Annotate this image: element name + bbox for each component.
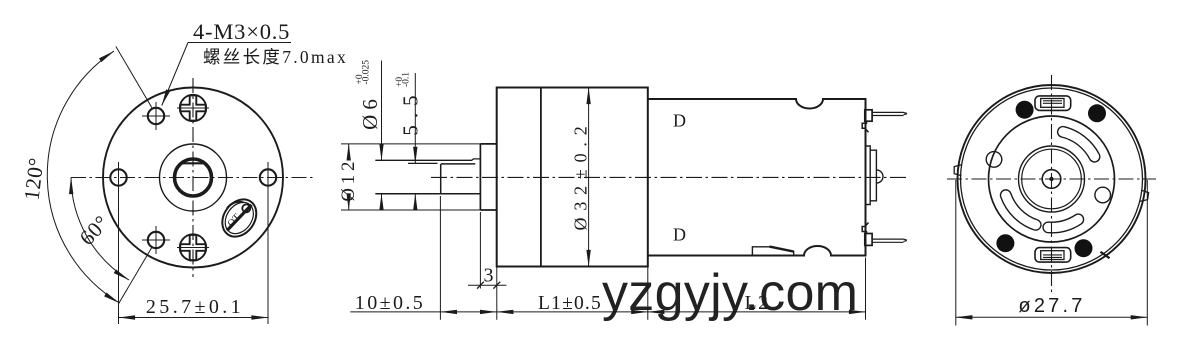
phillips screw top crosshair [177, 107, 209, 109]
dia6 dimension line lower [381, 194, 383, 210]
phillips screw bottom [180, 234, 206, 260]
mounting hole left M3 [110, 169, 126, 185]
vent slot lower-left [1000, 190, 1040, 230]
end cap bearing boss step1 [866, 146, 871, 205]
brush terminal bottom [1035, 248, 1071, 263]
motor end outer circle [958, 85, 1146, 273]
shaft flat edge segment b [441, 163, 475, 165]
end bell plateau circle [989, 116, 1115, 242]
svg-text:螺丝长度7.0max: 螺丝长度7.0max [203, 47, 348, 67]
gearbox right edge extension line [647, 267, 649, 320]
dia12 extension top [341, 143, 480, 145]
dimension L1 line [497, 311, 648, 313]
upper-left hole crosshair [142, 115, 170, 117]
radial extension line 240deg hole [119, 247, 152, 303]
shaft end circle [1042, 170, 1061, 189]
right view vertical centerline [1051, 75, 1053, 292]
rivet top-right [1088, 104, 1106, 122]
dim 5.5 dimension line lower [414, 194, 416, 210]
svg-text:3: 3 [484, 265, 494, 287]
dimension 27.7 line [956, 316, 1148, 318]
dia12 dimension arrows [348, 144, 350, 158]
right hole extension line down to dimension [267, 162, 269, 324]
terminal block bottom [865, 234, 872, 246]
dia6 dimension line upper [381, 61, 383, 161]
label 5.5 with tolerance [395, 72, 423, 136]
label dia6 with tolerance [355, 60, 382, 130]
dim 5.5 dimension line upper [414, 73, 416, 163]
leader 4-M3 callout [188, 42, 291, 44]
gearbox cover seam line [540, 88, 542, 267]
flange notch left [954, 165, 962, 176]
svg-text:Ø6: Ø6 [358, 94, 382, 130]
rivet bottom-right [1075, 239, 1093, 257]
right view horizontal centerline [947, 178, 1156, 180]
phillips screw top [180, 95, 206, 121]
svg-text:Ø12: Ø12 [339, 158, 359, 202]
cap tab below top terminal [862, 121, 868, 132]
shaft tip end face [440, 164, 442, 194]
dimension 10 line [350, 311, 497, 313]
shaft top line with flat [375, 159, 480, 160]
bearing housing circle inner [1022, 149, 1082, 209]
gearbox front hub circle [160, 144, 227, 211]
output boss top edge [480, 143, 496, 145]
flange chamfer mark lower-right [1101, 252, 1110, 258]
dia12 extension bottom [341, 209, 480, 211]
svg-text:D: D [673, 225, 686, 245]
dimension L2 line [648, 311, 866, 313]
cap tab above bottom terminal [862, 223, 868, 234]
dimension 25.7 line [119, 317, 269, 319]
left view vertical centerline [192, 78, 194, 277]
vent slot top-right [1058, 127, 1100, 162]
svg-text:ø27.7: ø27.7 [1018, 295, 1085, 317]
end cap bearing boss step2 [870, 150, 876, 201]
shaft bottom line [375, 193, 480, 195]
flange notch right [1140, 190, 1149, 201]
radial extension line 120deg hole [116, 47, 152, 108]
gearbox body rectangle [497, 88, 648, 267]
mounting hole lower-left M3 [148, 232, 164, 248]
svg-text:120°: 120° [19, 156, 48, 201]
rivet top-left [1016, 101, 1034, 119]
svg-text:-0.1: -0.1 [402, 72, 412, 87]
vent slot bottom [1043, 214, 1084, 233]
motor body outline [648, 99, 866, 256]
motor end inner rim circle [961, 88, 1143, 270]
dim 3 line with ticks [468, 284, 506, 286]
mounting hole right M3 [260, 169, 276, 185]
dim 3 extension line [479, 212, 481, 289]
bearing housing circle outer [1019, 146, 1085, 212]
mounting hole upper-left M3 [148, 108, 164, 124]
svg-text:10±0.5: 10±0.5 [355, 292, 425, 314]
motor end extension line [865, 258, 867, 320]
terminal pin bottom [872, 238, 903, 240]
rivet bottom-left [996, 234, 1014, 252]
vent hole upper-left [986, 152, 1002, 168]
gearbox face extension line [496, 267, 498, 320]
brush terminal top [1035, 96, 1071, 111]
dim 10 extension line at shaft flat [439, 196, 441, 320]
gearbox front outer circle [103, 88, 283, 268]
lower-left hole crosshair [142, 239, 170, 241]
svg-text:Ø32±0.2: Ø32±0.2 [571, 120, 591, 231]
shaft hole flat chord [182, 162, 204, 164]
svg-text:yzgyjy.com: yzgyjy.com [602, 264, 858, 322]
svg-text:60°: 60° [75, 211, 114, 250]
bottom vent tab [752, 247, 793, 256]
60 degree dimension arc [71, 178, 129, 281]
svg-text:5.5: 5.5 [399, 88, 423, 135]
dia32 dimension line [588, 88, 590, 267]
bearing nub semicircle [876, 170, 883, 183]
output shaft hole thick ring [175, 159, 212, 196]
phillips screw bottom crosshair [177, 247, 209, 249]
brand stamp logo oval [215, 193, 263, 243]
shaft flat edge segment a [408, 162, 438, 164]
svg-text:L1±0.5: L1±0.5 [538, 293, 602, 314]
terminal block top [865, 110, 872, 121]
svg-text:D: D [673, 111, 686, 131]
output boss face [479, 144, 481, 210]
left view horizontal centerline [71, 177, 313, 179]
middle view centerline [431, 176, 909, 178]
120 degree dimension arc [47, 51, 119, 303]
shaft center dot [1049, 177, 1053, 181]
left hole extension line down to dimension [118, 162, 120, 324]
terminal pin top [872, 111, 903, 113]
dia27.7 extension lines [955, 180, 957, 326]
output boss bottom edge [480, 209, 496, 211]
svg-text:-0.025: -0.025 [362, 60, 372, 85]
vent hole lower-right [1095, 187, 1111, 203]
svg-text:25.7±0.1: 25.7±0.1 [146, 296, 244, 318]
svg-text:4-M3×0.5: 4-M3×0.5 [193, 19, 290, 44]
